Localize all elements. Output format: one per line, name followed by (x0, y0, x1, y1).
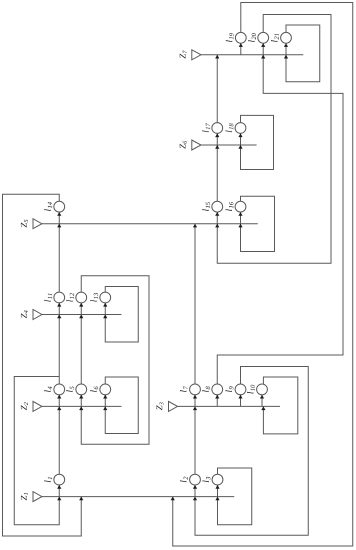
unit l17 (212, 123, 223, 134)
unit l15 (212, 201, 223, 212)
wire: bus Z3 into l10 (261, 395, 263, 407)
label l2 (180, 477, 188, 483)
unit l5 (76, 384, 87, 395)
wire: bus Z1 into l3 (217, 485, 219, 497)
wire: l10 feedback loop to bus Z3 (263, 377, 297, 434)
label l3 (203, 477, 211, 482)
label l7 (180, 386, 188, 392)
label l6 (90, 386, 98, 392)
buffer Z1 (33, 492, 42, 502)
unit l9 (235, 384, 246, 395)
unit l20 (258, 32, 269, 43)
unit l1 (54, 474, 65, 485)
wire: l13 feedback loop to bus Z4 (105, 287, 138, 343)
label l21 (271, 34, 279, 42)
wire: bus Z6 into l18 (240, 133, 242, 145)
wire: l4 feedback wrap to bus Z1 (14, 377, 59, 525)
label l15 (202, 202, 210, 211)
buffer Z6 (192, 140, 201, 150)
wire: bus Z7 (201, 54, 303, 56)
wire: l2 output to bus Z3 (194, 406, 196, 474)
wire: l3 feedback loop to bus Z1 (218, 468, 252, 525)
buffer Z3 (169, 401, 178, 411)
wire: bus Z4 (42, 314, 122, 316)
wire: l12 feedback wrap to bus Z2 (81, 276, 149, 444)
wire: bus Z2 into l5 (80, 395, 82, 407)
wire: bus Z3 into l7 (194, 395, 196, 407)
label l20 (248, 33, 256, 42)
wire: l5 output to bus Z4 (80, 315, 82, 385)
wire: bus Z1 into l2 (194, 485, 196, 497)
wire: bus Z3 into l9 (240, 395, 242, 407)
wire: bus Z7 into l19 (240, 43, 242, 55)
label Z1 (21, 493, 28, 500)
wire: l15 output to bus Z6 (216, 145, 218, 201)
wire: bus Z6 (201, 144, 257, 146)
label l8 (202, 386, 210, 392)
label Z5 (21, 220, 28, 228)
unit l3 (212, 474, 223, 485)
wire: bus Z4 into l11 (58, 303, 60, 315)
label Z7 (180, 50, 187, 58)
unit l7 (190, 384, 201, 395)
wire: l18 feedback loop to bus Z6 (241, 115, 274, 169)
wire: bus Z2 (42, 405, 122, 407)
wire: l16 feedback loop to bus Z5 (241, 196, 275, 251)
unit l19 (235, 32, 246, 43)
label l17 (202, 123, 210, 132)
wire: l8 output to bus Z7 (217, 55, 343, 384)
wire: l9 output to bus Z1 (195, 367, 308, 536)
label l5 (66, 386, 74, 392)
wire: bus Z2 into l4 (58, 395, 60, 407)
label l1 (44, 477, 52, 482)
wire: l7 output to bus Z5 (194, 224, 196, 384)
label l16 (226, 202, 234, 211)
label l12 (66, 293, 74, 302)
label l14 (44, 202, 52, 211)
unit l16 (235, 201, 246, 212)
wire: bus Z3 into l8 (216, 395, 218, 407)
unit l13 (100, 292, 111, 303)
label l9 (226, 386, 234, 392)
buffer Z7 (192, 50, 201, 60)
unit l4 (54, 384, 65, 395)
wire: l11 output to bus Z5 (58, 224, 60, 292)
unit l21 (281, 32, 292, 43)
unit l11 (54, 292, 65, 303)
label Z3 (156, 402, 163, 410)
wire: bus Z5 (42, 223, 258, 225)
unit l2 (190, 474, 201, 485)
wire: bus Z5 into l15 (216, 212, 218, 224)
wire: l20 feedback wrap to bus Z5 (217, 15, 331, 264)
wire: bus Z5 into l14 (58, 212, 60, 224)
label l11 (44, 293, 52, 301)
wire: bus Z4 into l13 (104, 303, 106, 315)
wire: l19 feedback wrap to bus Z1 (173, 3, 353, 547)
wire: l14 feedback wrap to bus Z1 (3, 194, 82, 536)
unit l18 (235, 123, 246, 134)
label l18 (226, 123, 234, 132)
wire: bus Z6 into l17 (216, 133, 218, 145)
label Z4 (21, 310, 28, 318)
unit l8 (212, 384, 223, 395)
unit l12 (76, 292, 87, 303)
buffer Z4 (33, 310, 42, 320)
wire: bus Z2 into l6 (104, 395, 106, 407)
label l13 (90, 293, 98, 302)
label l4 (44, 386, 52, 392)
wire: l6 feedback loop to bus Z2 (105, 377, 138, 434)
buffer Z2 (33, 401, 42, 411)
wire: l21 feedback loop to bus Z7 (286, 25, 320, 82)
unit l14 (54, 201, 65, 212)
wire: l1 output to bus Z2 (58, 406, 60, 474)
wire: bus Z7 into l21 (285, 43, 287, 55)
wire: bus Z1 (42, 496, 234, 498)
wire: bus Z7 into l20 (262, 43, 264, 55)
wire: l17 output to bus Z7 (216, 55, 218, 123)
label Z2 (21, 402, 28, 410)
label Z6 (180, 141, 187, 149)
label l10 (247, 385, 255, 394)
unit l6 (100, 384, 111, 395)
wire: bus Z4 into l12 (80, 303, 82, 315)
label l19 (226, 33, 234, 42)
buffer Z5 (33, 219, 42, 229)
wire: bus Z5 into l16 (240, 212, 242, 224)
wire: bus Z3 (178, 405, 281, 407)
wire: bus Z1 into l1 (58, 485, 60, 497)
wire: l4 output to bus Z4 (58, 315, 60, 385)
unit l10 (257, 384, 268, 395)
